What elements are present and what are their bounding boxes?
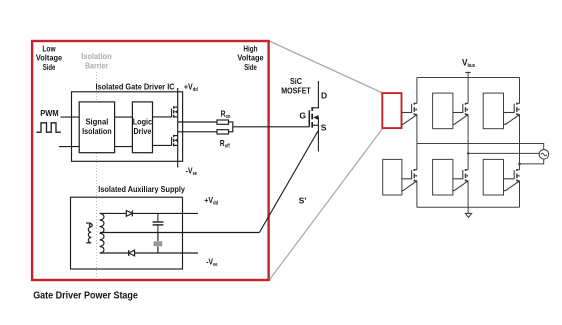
- capacitor C2 gray: [157, 233, 159, 242]
- auxiliary supply box: [71, 197, 183, 269]
- red boundary box: [32, 41, 269, 280]
- lower output FET: [172, 135, 178, 147]
- MOSFET top-right: [504, 103, 520, 125]
- driver box bottom-left: [383, 159, 402, 195]
- PWM square wave symbol: [36, 123, 60, 132]
- wire LD to lower FET gate: [153, 144, 172, 146]
- driver box U2 highlighted (red): [382, 93, 401, 128]
- phase B wire: [468, 152, 539, 154]
- phase A wire: [417, 144, 544, 150]
- wire Roff to junction: [229, 131, 233, 133]
- diode D1: [126, 211, 132, 217]
- transformer T1 primary: [86, 223, 91, 243]
- PWM return wire: [59, 146, 79, 148]
- svg-text:G: G: [299, 110, 306, 120]
- junction dot phase B: [467, 152, 469, 154]
- isolation barrier dotted line: [96, 72, 98, 278]
- PWM input wire: [61, 116, 80, 118]
- ground: [465, 213, 471, 217]
- junction dot phase C: [518, 163, 521, 166]
- zoom indicator line top: [269, 41, 382, 93]
- +Vdd -Vee rail: [177, 88, 179, 168]
- label Low Voltage Side: [36, 43, 63, 72]
- Vbus terminal: [465, 72, 471, 74]
- diode D2: [129, 250, 135, 256]
- right circuit inverter: [417, 73, 549, 218]
- svg-text:Barrier: Barrier: [85, 60, 109, 70]
- MOSFET bottom-left: [401, 169, 417, 191]
- label SiC MOSFET: [281, 76, 311, 95]
- svg-text:Gate Driver Power Stage: Gate Driver Power Stage: [33, 290, 138, 301]
- right leg wire: [519, 78, 521, 208]
- AC source: [539, 150, 549, 160]
- zoom indicator line bottom: [269, 129, 382, 281]
- svg-text:Side: Side: [43, 62, 56, 72]
- MOSFET top-left: [401, 103, 417, 125]
- bottom rail: [417, 206, 520, 208]
- transformer T1 secondary: [100, 213, 104, 253]
- wire Ron to junction: [229, 121, 233, 123]
- resistor Roff: [217, 130, 229, 134]
- svg-text:D: D: [321, 91, 327, 101]
- phase C wire: [520, 159, 544, 164]
- junction bar: [232, 122, 234, 133]
- MOSFET top-center: [453, 103, 469, 125]
- svg-text:PWM: PWM: [40, 108, 58, 118]
- wire rail to Roff: [178, 131, 217, 133]
- label High Voltage Side: [237, 43, 264, 72]
- svg-text:Side: Side: [244, 62, 257, 72]
- wire rail to Ron: [178, 121, 217, 123]
- MOSFET bottom-center: [453, 169, 469, 191]
- center leg wire: [467, 78, 469, 214]
- label Isolation Barrier: [81, 51, 111, 70]
- upper output FET: [172, 106, 178, 118]
- aux mid wire: [100, 232, 259, 234]
- SiC MOSFET Q1: [309, 81, 318, 152]
- driver box bottom-center: [433, 159, 453, 195]
- top rail: [417, 77, 520, 79]
- gate wire to SiC MOSFET: [233, 126, 309, 128]
- svg-text:Drive: Drive: [134, 126, 152, 136]
- capacitor C1: [153, 213, 164, 232]
- svg-text:S: S: [321, 122, 327, 132]
- signal isolation block: [79, 102, 114, 153]
- wire SI to LD top: [115, 116, 133, 118]
- svg-text:MOSFET: MOSFET: [281, 85, 311, 95]
- MOSFET bottom-right: [504, 169, 520, 191]
- left leg wire: [416, 78, 418, 208]
- driver box top-right: [483, 93, 503, 129]
- logic drive block: [132, 102, 152, 153]
- aux bottom wire: [100, 252, 129, 254]
- kelvin source S' diagonal wire: [259, 131, 318, 233]
- svg-text:Isolated Gate Driver IC: Isolated Gate Driver IC: [96, 81, 175, 91]
- driver box top-center: [433, 93, 453, 129]
- wire SI to LD bottom: [115, 146, 133, 148]
- svg-text:Isolated Auxiliary Supply: Isolated Auxiliary Supply: [98, 184, 185, 194]
- aux top wire: [100, 212, 126, 214]
- svg-text:Isolation: Isolation: [82, 126, 112, 136]
- resistor Ron: [217, 120, 229, 124]
- wire LD to upper FET gate: [153, 116, 172, 118]
- gate driver IC box U1: [72, 92, 183, 162]
- svg-text:S’: S’: [299, 196, 307, 206]
- driver box bottom-right: [483, 159, 503, 195]
